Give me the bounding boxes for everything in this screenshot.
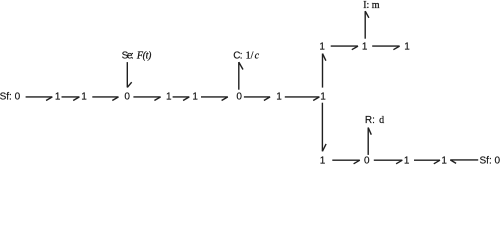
svg-text:1: 1	[404, 156, 410, 167]
svg-text:Sf: 0: Sf: 0	[0, 91, 21, 102]
wire bond V-down (J8 down to J12)	[322, 103, 326, 152]
svg-text:Se:: Se:	[122, 50, 134, 61]
wire bond B6 J5->J6	[201, 97, 228, 101]
svg-text:1: 1	[320, 91, 326, 102]
svg-text:I: m: I: m	[363, 0, 380, 11]
wire bond B12 J13->J14	[374, 160, 403, 164]
wire bond B9 J9->J10	[331, 46, 358, 50]
svg-text:d: d	[379, 115, 384, 126]
svg-text:1: 1	[441, 156, 447, 167]
resistor R: d label	[365, 115, 384, 126]
svg-text:1: 1	[276, 91, 282, 102]
wire bond B13 J14->J15	[414, 160, 440, 164]
svg-text:c: c	[255, 50, 260, 61]
svg-text:1: 1	[362, 41, 368, 52]
svg-text:1: 1	[404, 41, 410, 52]
wire bond B3 J2->J3	[92, 97, 118, 101]
wire bond B7 J6->J7	[244, 97, 270, 101]
wire bond B14 Sf->J15 (left pointing)	[450, 160, 478, 164]
svg-text:1: 1	[55, 91, 61, 102]
svg-text:0: 0	[236, 91, 242, 102]
wire bond B5 J4->J5	[173, 97, 190, 101]
wire bond B4 J3->J4	[133, 97, 160, 101]
wire bond B2 J1->J2	[62, 97, 80, 101]
svg-text:0: 0	[364, 156, 370, 167]
svg-text:1: 1	[320, 156, 326, 167]
wire bond B8 J7->J8	[285, 97, 320, 101]
wire bond V-Se (Se down to J3)	[127, 62, 131, 87]
svg-text:1/: 1/	[246, 50, 254, 61]
wire bond V-R (J13 up to R)	[368, 128, 371, 155]
svg-text:1: 1	[192, 91, 198, 102]
svg-text:R:: R:	[365, 115, 375, 126]
wire bond B10 J10->J11	[372, 46, 399, 50]
svg-text:Sf: 0: Sf: 0	[480, 156, 501, 167]
wire bond B1 Sf->J1	[26, 97, 53, 101]
svg-text:1: 1	[166, 91, 172, 102]
svg-text:0: 0	[124, 91, 130, 102]
wire bond V-up (J8 up to J9)	[323, 54, 326, 88]
source Se: F(t) label	[122, 50, 152, 61]
svg-text:1: 1	[319, 41, 325, 52]
wire bond V-C (J6 up to C)	[239, 62, 243, 90]
wire bond V-I (J10 up to I)	[365, 11, 369, 39]
capacitor C: 1/c label	[233, 50, 259, 61]
wire bond B11 J12->J13	[332, 160, 360, 164]
svg-text:C:: C:	[233, 50, 242, 61]
svg-text:1: 1	[81, 91, 87, 102]
svg-text:F(t): F(t)	[136, 50, 152, 61]
